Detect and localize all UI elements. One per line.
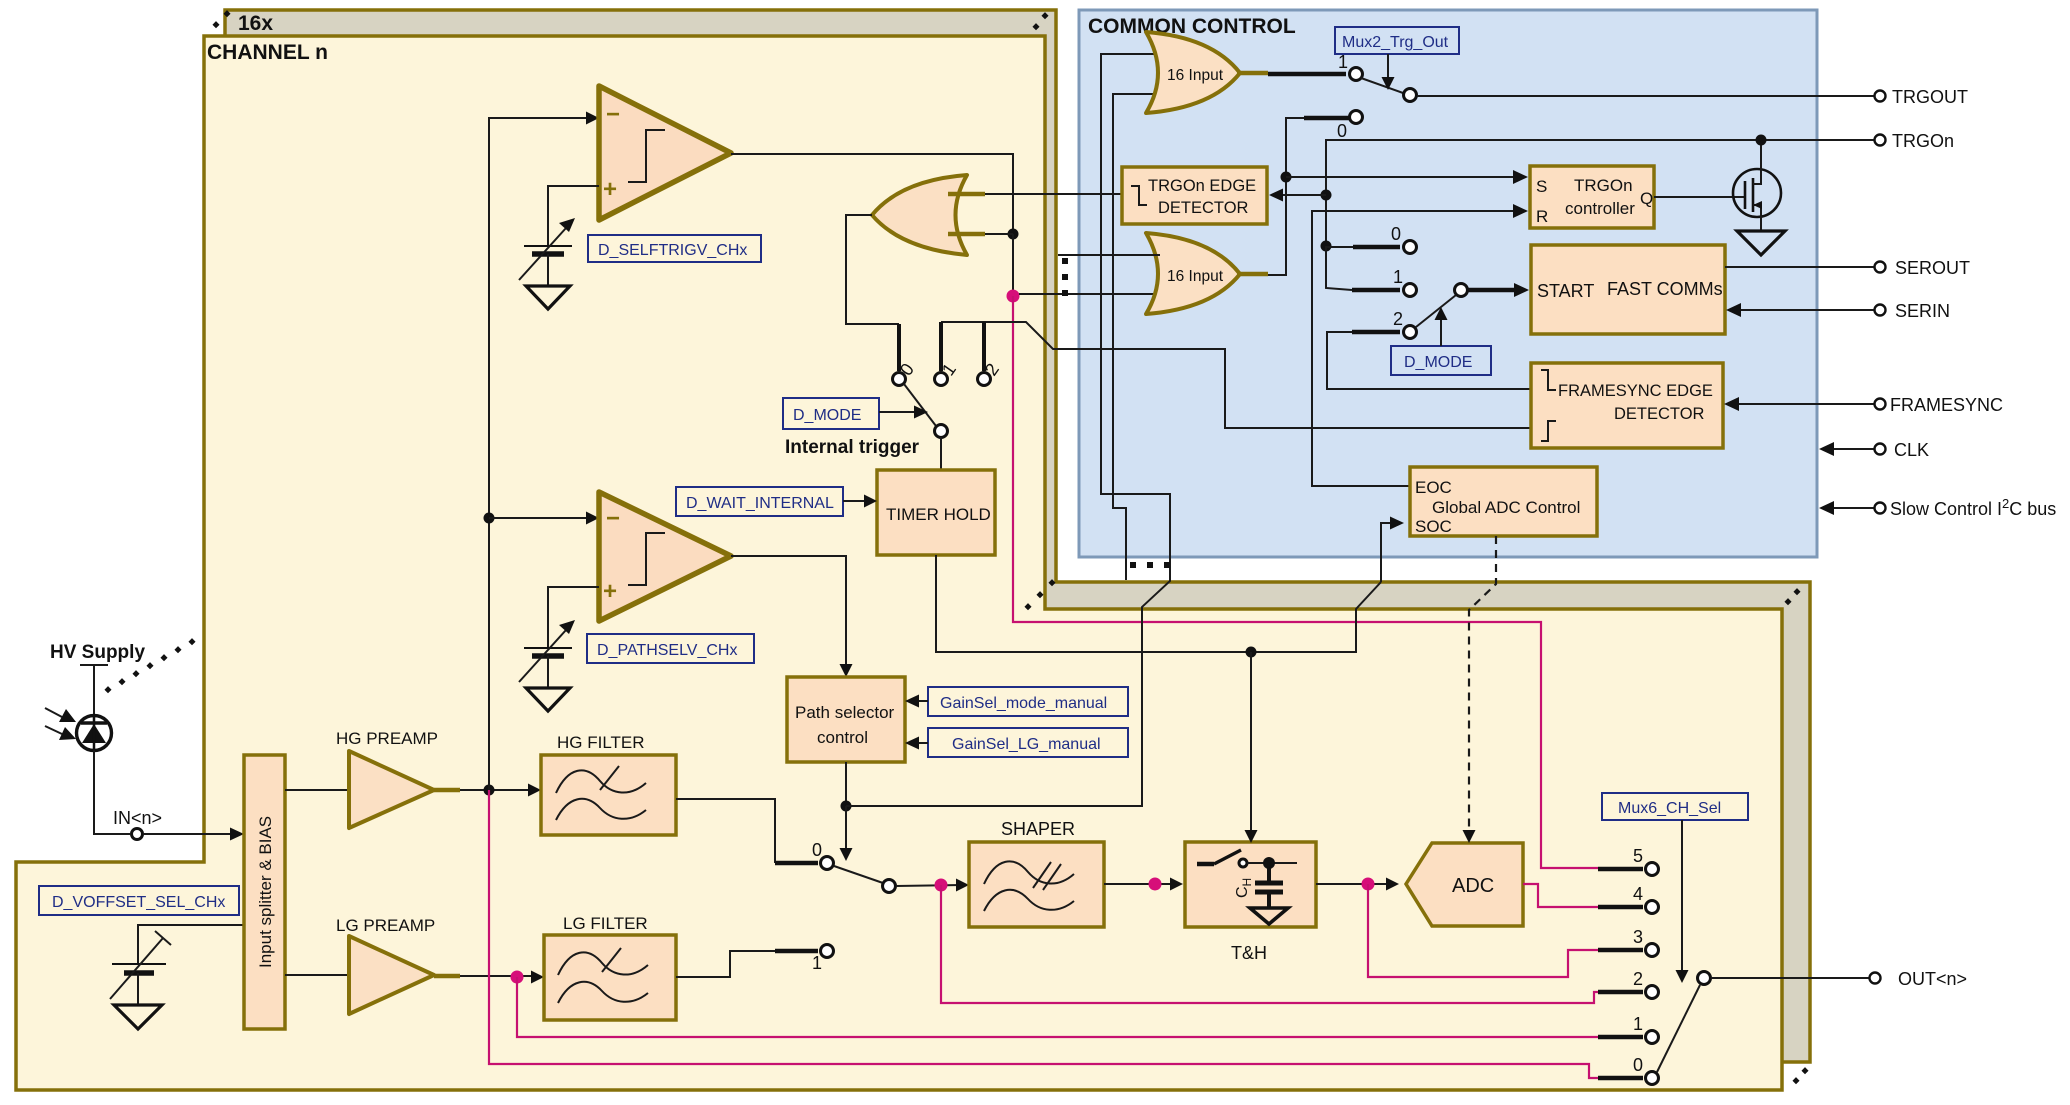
svg-text:IN<n>: IN<n> bbox=[113, 808, 162, 828]
node TRGOn edge tap bbox=[1321, 190, 1332, 201]
wire magenta LG to mux contact 1 bbox=[517, 977, 1598, 1037]
wire path selector output bbox=[845, 762, 847, 806]
ground below voffset DAC bbox=[114, 1005, 162, 1029]
svg-text:SOC: SOC bbox=[1415, 517, 1452, 536]
wire voffset DAC to splitter bbox=[138, 925, 244, 963]
wire 16-line trigger bus into stack bbox=[1113, 94, 1160, 580]
node hold cap top bbox=[1263, 857, 1275, 869]
block Input splitter & BIAS bbox=[244, 755, 285, 1029]
adc block bbox=[1406, 843, 1523, 926]
svg-text:0: 0 bbox=[812, 840, 822, 860]
svg-text:2: 2 bbox=[1393, 309, 1403, 329]
svg-text:LG FILTER: LG FILTER bbox=[563, 914, 648, 933]
wire magenta ADC out to mux contact 4 bbox=[1523, 884, 1598, 907]
wire magenta trigger down and to mux contact 5 bbox=[1013, 296, 1598, 868]
node D_MODE mux feed bbox=[1321, 241, 1332, 252]
stack corner dots band right bbox=[1784, 588, 1800, 605]
wire mode switch contacts 1,2 tie to external trigger bbox=[941, 322, 1531, 428]
svg-text:D_MODE: D_MODE bbox=[1404, 354, 1472, 371]
wire GainSel_LG to path selector bbox=[915, 742, 928, 744]
svg-text:HG PREAMP: HG PREAMP bbox=[336, 729, 438, 748]
block Global ADC Control bbox=[1410, 467, 1597, 536]
label box D_MODE common bbox=[1391, 346, 1491, 375]
wire hold to T&H top bbox=[1250, 652, 1252, 834]
node gain contact 0 bbox=[821, 857, 834, 870]
wire comp2 plus input bbox=[548, 587, 599, 648]
comparator U1 self-trigger bbox=[599, 86, 731, 220]
wire D_MODE to blade bbox=[879, 411, 918, 413]
svg-text:EOC: EOC bbox=[1415, 478, 1452, 497]
wire HG preamp output bbox=[434, 788, 460, 793]
svg-text:0: 0 bbox=[1337, 121, 1347, 141]
wire contact 2 to framesync edge out bbox=[1327, 332, 1531, 389]
wire OR1 output stub bbox=[1237, 71, 1268, 76]
switch blade trigger mode mux bbox=[904, 384, 936, 426]
svg-text:+: + bbox=[603, 176, 617, 203]
node LG preamp out (magenta) bbox=[511, 971, 524, 984]
svg-text:3: 3 bbox=[1633, 927, 1643, 947]
svg-text:COMMON CONTROL: COMMON CONTROL bbox=[1088, 15, 1296, 38]
block TRGOn controller bbox=[1530, 166, 1654, 228]
back page of 16x channel stack bbox=[225, 10, 1810, 1062]
svg-text:controller: controller bbox=[1565, 199, 1635, 218]
node out contact 4 bbox=[1646, 901, 1659, 914]
wire junction to OR input bbox=[985, 233, 1013, 235]
amplifier LG PREAMP bbox=[349, 936, 434, 1014]
wire OUT line bbox=[1711, 977, 1869, 979]
wire path selector to gain switch blade bbox=[845, 806, 847, 851]
svg-text:START: START bbox=[1537, 281, 1594, 301]
label box D_MODE channel bbox=[783, 398, 879, 429]
wire Q to mosfet gate bbox=[1654, 196, 1744, 198]
hysteresis glyph U2 bbox=[628, 533, 665, 585]
node channel trigger (magenta) bbox=[1007, 290, 1020, 303]
glyph framesync falling edge bbox=[1541, 370, 1556, 390]
wire trigger node to 16-input OR2 bbox=[1019, 293, 1165, 295]
switch blade D_MODE mux bbox=[1416, 295, 1456, 327]
photodiode light arrows bbox=[45, 708, 76, 740]
node out contact 2 bbox=[1646, 986, 1659, 999]
svg-text:Mux2_Trg_Out: Mux2_Trg_Out bbox=[1342, 34, 1449, 51]
wire FRAMESYNC pin bbox=[1736, 403, 1874, 405]
wire timer hold to T&H and SOC bbox=[936, 555, 1381, 652]
svg-text:16 Input: 16 Input bbox=[1167, 67, 1224, 84]
svg-text:1: 1 bbox=[1393, 267, 1403, 287]
svg-text:1: 1 bbox=[1633, 1014, 1643, 1034]
node dmode contact 0 bbox=[1404, 241, 1417, 254]
node T&H in (magenta) bbox=[1149, 878, 1162, 891]
node drain junction bbox=[1756, 135, 1767, 146]
svg-text:SERIN: SERIN bbox=[1895, 301, 1950, 321]
block HG FILTER bbox=[541, 755, 676, 835]
svg-text:CHANNEL n: CHANNEL n bbox=[207, 41, 328, 64]
wire splitter to HG preamp bbox=[285, 789, 349, 791]
glyph shaper waves bbox=[984, 861, 1074, 884]
label box GainSel_LG_manual bbox=[928, 728, 1128, 757]
trimmer DAC selftrig bbox=[519, 218, 575, 286]
wire path state to common OR bus bbox=[846, 54, 1170, 806]
wire comp1 output to OR and trigger node bbox=[731, 154, 1013, 229]
svg-text:T&H: T&H bbox=[1231, 943, 1267, 963]
svg-text:D_PATHSELV_CHx: D_PATHSELV_CHx bbox=[597, 642, 737, 659]
wire CLK arrow bbox=[1831, 448, 1874, 450]
wire OR top input from TRGOn edge detector bbox=[985, 193, 1122, 195]
pin SEROUT bbox=[1875, 262, 1886, 273]
block TIMER HOLD bbox=[877, 470, 995, 555]
wire junction down to trigger node bbox=[1012, 234, 1014, 292]
svg-text:TRGOn EDGE: TRGOn EDGE bbox=[1148, 177, 1256, 195]
wire splitter to LG preamp bbox=[285, 974, 349, 976]
node shaper in (magenta) bbox=[935, 879, 948, 892]
block Path selector control bbox=[787, 677, 905, 762]
wire comp2 output to path selector bbox=[731, 556, 846, 669]
wire SEROUT bbox=[1725, 266, 1874, 268]
svg-text:1: 1 bbox=[812, 953, 822, 973]
node OR input junction bbox=[1008, 229, 1019, 240]
wire comp1 plus input bbox=[548, 186, 599, 246]
transistor Q1 trgon driver bbox=[1733, 169, 1781, 217]
pin FRAMESYNC bbox=[1875, 399, 1886, 410]
stack corner dots top-left bbox=[212, 10, 230, 28]
wire T&H out to ADC bbox=[1316, 883, 1390, 885]
svg-text:DETECTOR: DETECTOR bbox=[1614, 405, 1705, 423]
wire HG filter out to gain contact 0 bbox=[676, 799, 775, 863]
svg-text:TRGOn: TRGOn bbox=[1574, 176, 1633, 195]
svg-text:4: 4 bbox=[1633, 884, 1643, 904]
pin TRGOn bbox=[1875, 135, 1886, 146]
svg-text:0: 0 bbox=[1633, 1055, 1643, 1075]
svg-text:FRAMESYNC EDGE: FRAMESYNC EDGE bbox=[1558, 382, 1713, 400]
wire OR2 output stub bbox=[1237, 272, 1268, 277]
node gain contact 1 bbox=[821, 945, 834, 958]
node out blade pivot bbox=[1698, 972, 1711, 985]
svg-text:Path selector: Path selector bbox=[795, 703, 895, 722]
svg-text:16x: 16x bbox=[238, 12, 273, 35]
switch blade gain mux bbox=[834, 866, 883, 883]
wire TRGOn line bbox=[1326, 140, 1874, 246]
pin slow control bbox=[1875, 503, 1886, 514]
stack ellipsis dots bus bbox=[1130, 562, 1170, 568]
glyph LG filter waves bbox=[558, 952, 648, 975]
node ADC in (magenta) bbox=[1362, 878, 1375, 891]
COMMON CONTROL box bbox=[1079, 10, 1817, 557]
pin TRGOUT bbox=[1875, 91, 1886, 102]
node dmode blade pivot bbox=[1455, 284, 1468, 297]
pin SERIN bbox=[1875, 305, 1886, 316]
label box Mux2_Trg_Out bbox=[1335, 27, 1459, 54]
svg-text:SHAPER: SHAPER bbox=[1001, 819, 1075, 839]
node mode contact 0 bbox=[893, 373, 906, 386]
node S tap bbox=[1281, 172, 1292, 183]
block T&H bbox=[1185, 842, 1316, 927]
wire HV supply bar bbox=[80, 665, 108, 717]
ground below selftrig DAC bbox=[526, 286, 570, 309]
stack corner dots mid notch bbox=[1024, 579, 1055, 610]
dotted stack line from photodiode bbox=[104, 638, 195, 693]
wire mosfet source to ground bbox=[1760, 216, 1762, 231]
wire SERIN bbox=[1738, 309, 1874, 311]
wire IN to input splitter bbox=[143, 833, 234, 835]
wire R input from EOC bbox=[1312, 211, 1516, 486]
or-gate 16 Input OR2 bbox=[1146, 233, 1240, 314]
node out contact 1 bbox=[1646, 1031, 1659, 1044]
node path selector out bbox=[841, 801, 852, 812]
block FAST COMMs bbox=[1531, 245, 1725, 334]
pin CLK bbox=[1875, 444, 1886, 455]
wire blade to START bbox=[1468, 288, 1518, 293]
wire Mux2 control arrow bbox=[1387, 54, 1389, 80]
svg-text:FRAMESYNC: FRAMESYNC bbox=[1890, 395, 2003, 415]
wire into TRGOn edge detector bbox=[1279, 194, 1326, 196]
ground below pathsel DAC bbox=[526, 688, 570, 711]
label box Mux6_CH_Sel bbox=[1602, 793, 1748, 820]
wire magenta HG to mux contact 0 bbox=[489, 790, 1598, 1078]
ground hold cap bbox=[1250, 908, 1288, 924]
trimmer DAC voffset bbox=[110, 931, 171, 1005]
wire D_MODE control arrow bbox=[1440, 317, 1442, 346]
ground mosfet bbox=[1737, 231, 1785, 255]
svg-text:TRGOUT: TRGOUT bbox=[1892, 87, 1968, 107]
svg-text:S: S bbox=[1536, 177, 1547, 196]
wire GainSel_mode to path selector bbox=[915, 700, 928, 702]
svg-text:HG FILTER: HG FILTER bbox=[557, 733, 645, 752]
svg-text:Mux6_CH_Sel: Mux6_CH_Sel bbox=[1618, 800, 1721, 817]
svg-text:Q: Q bbox=[1640, 189, 1653, 208]
svg-text:R: R bbox=[1536, 207, 1548, 226]
svg-text:SEROUT: SEROUT bbox=[1895, 258, 1970, 278]
svg-text:+: + bbox=[603, 578, 617, 605]
capacitor CH bbox=[1255, 863, 1283, 908]
or-gate channel trigger OR bbox=[872, 175, 967, 255]
svg-text:D_MODE: D_MODE bbox=[793, 407, 861, 424]
stack ellipsis dots OR2 bbox=[1062, 258, 1068, 296]
svg-text:D_VOFFSET_SEL_CHx: D_VOFFSET_SEL_CHx bbox=[52, 894, 225, 911]
glyph HG filter waves bbox=[556, 770, 646, 793]
node out contact 3 bbox=[1646, 944, 1659, 957]
glyph framesync rising edge bbox=[1541, 421, 1556, 441]
node gain blade pivot bbox=[883, 880, 896, 893]
hysteresis glyph U1 bbox=[628, 130, 665, 182]
wire photodiode to IN pad bbox=[94, 750, 130, 834]
node trgout contact 1 bbox=[1350, 68, 1363, 81]
wire Mux6 control arrow bbox=[1681, 820, 1683, 972]
wire OR1 out to contact 1 bbox=[1268, 72, 1346, 77]
wire OR output to mode switch contact 0 bbox=[846, 215, 899, 324]
wire contact 2 stub bbox=[982, 322, 986, 371]
node trgout contact 0 bbox=[1350, 111, 1363, 124]
trimmer DAC pathsel bbox=[519, 620, 575, 688]
wire shaper out to T&H bbox=[1104, 883, 1176, 885]
block TRGOn EDGE DETECTOR bbox=[1122, 167, 1267, 224]
svg-text:DETECTOR: DETECTOR bbox=[1158, 199, 1249, 217]
or-gate 16 Input OR1 bbox=[1146, 32, 1240, 113]
wire tap to comp2 bbox=[489, 517, 591, 519]
node mode contact 1 bbox=[935, 373, 948, 386]
svg-text:D_WAIT_INTERNAL: D_WAIT_INTERNAL bbox=[686, 495, 834, 512]
node HG preamp out bbox=[484, 785, 495, 796]
glyph falling edge bbox=[1131, 186, 1147, 205]
node hold line junction bbox=[1246, 647, 1257, 658]
label box D_VOFFSET_SEL_CHx bbox=[39, 886, 239, 915]
stack corner dots bottom-right bbox=[1792, 1067, 1808, 1084]
svg-text:CLK: CLK bbox=[1894, 440, 1929, 460]
svg-text:−: − bbox=[606, 505, 620, 532]
svg-text:ADC: ADC bbox=[1452, 875, 1494, 897]
svg-text:D_SELFTRIGV_CHx: D_SELFTRIGV_CHx bbox=[598, 242, 747, 259]
svg-text:GainSel_mode_manual: GainSel_mode_manual bbox=[940, 695, 1107, 712]
wire feed to contact 1 bbox=[1326, 246, 1352, 290]
glyph T&H switch bbox=[1197, 862, 1214, 867]
photodiode D1 bbox=[77, 716, 112, 752]
wire magenta shaper-in to mux contact 2 bbox=[941, 885, 1598, 1003]
svg-text:LG PREAMP: LG PREAMP bbox=[336, 916, 435, 935]
block SHAPER bbox=[969, 842, 1104, 927]
wire contact 0 to OR2 via S tap bbox=[1267, 118, 1349, 275]
svg-text:TIMER HOLD: TIMER HOLD bbox=[886, 505, 991, 524]
label box D_PATHSELV_CHx bbox=[587, 634, 754, 663]
wire D_WAIT to timer hold bbox=[843, 500, 869, 502]
wire SOC input bbox=[1381, 523, 1394, 582]
wire dashed global ADC control to ADC bbox=[1469, 536, 1496, 833]
wire contact 0 thick stub bbox=[1304, 116, 1349, 121]
node dmode contact 1 bbox=[1404, 284, 1417, 297]
stack corner dots top-right bbox=[1032, 12, 1048, 30]
svg-text:TRGOn: TRGOn bbox=[1892, 131, 1954, 151]
label box GainSel_mode_manual bbox=[928, 687, 1128, 716]
block LG FILTER bbox=[544, 935, 676, 1020]
switch blade output mux bbox=[1657, 985, 1700, 1072]
svg-text:FAST COMMs: FAST COMMs bbox=[1607, 279, 1723, 299]
svg-text:2: 2 bbox=[1633, 969, 1643, 989]
svg-text:0: 0 bbox=[1391, 224, 1401, 244]
block FRAMESYNC EDGE DETECTOR bbox=[1531, 363, 1723, 448]
label box D_SELFTRIGV_CHx bbox=[588, 235, 761, 262]
svg-text:Input splitter & BIAS: Input splitter & BIAS bbox=[256, 816, 275, 968]
wire S input bbox=[1286, 176, 1516, 178]
svg-text:GainSel_LG_manual: GainSel_LG_manual bbox=[952, 736, 1101, 753]
wire OR2 top input bbox=[1058, 254, 1160, 256]
svg-text:Global ADC Control: Global ADC Control bbox=[1432, 498, 1580, 517]
wire OR gate input stubs bbox=[948, 194, 985, 234]
svg-text:5: 5 bbox=[1633, 846, 1643, 866]
svg-text:Internal trigger: Internal trigger bbox=[785, 437, 920, 458]
node dmode contact 2 bbox=[1404, 326, 1417, 339]
wire HG tap bus up to discriminators bbox=[489, 118, 591, 790]
node out contact 5 bbox=[1646, 863, 1659, 876]
wire I2C arrow bbox=[1831, 507, 1874, 509]
node blade pivot bbox=[935, 425, 948, 438]
wire mux contact stubs bbox=[1598, 869, 1643, 1078]
wire LG preamp output bbox=[434, 974, 460, 979]
node out contact 0 bbox=[1646, 1072, 1659, 1085]
svg-text:16 Input: 16 Input bbox=[1167, 268, 1224, 285]
wire LG filter out to gain contact 1 bbox=[676, 951, 775, 977]
wire mosfet drain to TRGOn bbox=[1760, 140, 1762, 170]
wire TRGOUT line bbox=[1417, 95, 1874, 97]
label box D_WAIT_INTERNAL bbox=[676, 487, 843, 516]
svg-text:Slow Control I2C bus: Slow Control I2C bus bbox=[1890, 496, 2056, 519]
comparator U2 path select bbox=[599, 492, 731, 621]
wire feed to contact 0 bbox=[1326, 246, 1353, 248]
svg-text:control: control bbox=[817, 728, 868, 747]
svg-text:OUT<n>: OUT<n> bbox=[1898, 969, 1967, 989]
amplifier HG PREAMP bbox=[349, 751, 434, 828]
node IN<n> pad bbox=[132, 829, 143, 840]
wire pivot to timer hold bbox=[940, 437, 942, 470]
pin OUT<n> bbox=[1870, 973, 1881, 984]
node mode contact 2 bbox=[978, 373, 991, 386]
svg-text:HV Supply: HV Supply bbox=[50, 642, 145, 663]
switch blade Mux2 trgout bbox=[1361, 78, 1403, 93]
svg-text:−: − bbox=[606, 101, 620, 128]
node comp2 tap bbox=[484, 513, 495, 524]
wire gain mux out to shaper bbox=[896, 885, 962, 886]
node trgout blade pivot bbox=[1404, 89, 1417, 102]
wire magenta T&H-out to mux contact 3 bbox=[1368, 884, 1598, 977]
